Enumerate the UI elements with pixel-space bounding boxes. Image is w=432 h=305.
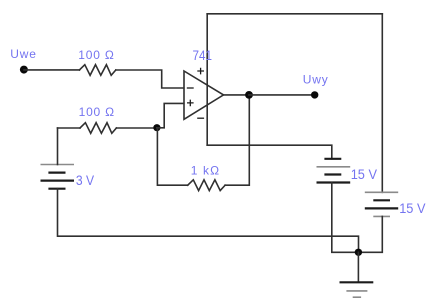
node junction A (noninverting net) bbox=[153, 124, 160, 131]
battery V1 15V plate 2 long gray bbox=[317, 166, 351, 168]
node Uwy output terminal bbox=[311, 91, 318, 98]
battery V2 15V plate 4 short gray bbox=[373, 215, 390, 217]
svg-text:15 V: 15 V bbox=[399, 200, 426, 216]
svg-text:Uwe: Uwe bbox=[10, 47, 36, 61]
op-amp supply minus sign bbox=[197, 117, 204, 119]
wire left corner to R2 bbox=[58, 127, 81, 129]
wire battery V1 bottom to ground junction bbox=[332, 183, 356, 253]
battery V1 15V plate 3 short bbox=[324, 173, 341, 175]
op-amp input minus sign bbox=[187, 87, 194, 89]
battery V1 15V plate 1 short bbox=[324, 158, 341, 160]
svg-text:Uwy: Uwy bbox=[303, 73, 329, 87]
resistor R3 1 kOhm feedback bbox=[188, 180, 225, 191]
wire ground junction to ground symbol bbox=[357, 252, 359, 282]
wire R1 to op-amp inverting input bbox=[116, 70, 184, 88]
wire op-amp output to node bbox=[224, 94, 249, 96]
wire R2 to junction bbox=[116, 127, 153, 129]
wire output node to Uwy terminal bbox=[249, 94, 315, 96]
svg-text:1 kΩ: 1 kΩ bbox=[191, 163, 221, 177]
ground bar 3 gray bbox=[353, 296, 361, 298]
op-amp input plus sign bbox=[187, 100, 194, 107]
svg-text:15 V: 15 V bbox=[351, 166, 378, 182]
battery V3 3V plate 1 long gray bbox=[41, 164, 75, 166]
ground bar 1 bbox=[340, 281, 374, 283]
battery V2 15V plate 3 long bbox=[365, 207, 398, 209]
node ground junction bbox=[355, 249, 362, 256]
resistor R2 100 ohm (lower) bbox=[80, 123, 116, 134]
wire R3 to output riser bbox=[225, 95, 249, 185]
wire Uwe terminal to R1 bbox=[24, 69, 79, 71]
ground bar 2 gray bbox=[346, 290, 367, 292]
svg-text:100 Ω: 100 Ω bbox=[79, 105, 115, 119]
op-amp U1 741 triangle bbox=[184, 71, 224, 119]
battery V3 3V plate 3 long bbox=[41, 180, 75, 182]
wire junction to op-amp noninverting input bbox=[157, 103, 184, 127]
wire battery V2 bottom to ground junction bbox=[360, 216, 382, 252]
battery V2 15V plate 1 long gray bbox=[365, 191, 398, 193]
resistor R1 100 ohm (top) bbox=[79, 65, 115, 76]
wire junction down to R3 bbox=[157, 128, 187, 185]
battery V3 3V plate 4 short bbox=[48, 188, 65, 190]
op-amp U1 741 supply vertical (V+ up / V- down) bbox=[206, 14, 208, 145]
wire top rail V+ bbox=[207, 13, 382, 15]
svg-text:100 Ω: 100 Ω bbox=[78, 48, 114, 62]
wire battery V3 bottom long return to ground junction bbox=[58, 189, 359, 253]
node Uwe input terminal bbox=[20, 66, 28, 74]
wire V- to battery V1 bbox=[207, 145, 332, 159]
battery V2 15V plate 2 short bbox=[373, 199, 390, 201]
battery V1 15V plate 4 long bbox=[317, 181, 351, 183]
svg-text:3 V: 3 V bbox=[76, 172, 95, 188]
svg-text:741: 741 bbox=[193, 47, 213, 63]
wire left branch corner down to battery V3 bbox=[57, 128, 59, 165]
battery V3 3V plate 2 short bbox=[48, 172, 65, 174]
node output junction bbox=[245, 91, 253, 99]
wire right drop to battery V2 bbox=[381, 14, 383, 193]
op-amp supply plus sign bbox=[197, 68, 204, 75]
